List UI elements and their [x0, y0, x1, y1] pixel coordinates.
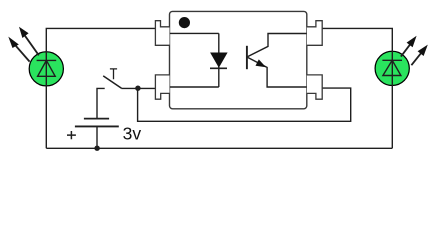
pin 1 index dot — [179, 17, 190, 28]
wire: switch left terminal down to battery top plate — [97, 88, 105, 118]
wire: LED D1 anode to top rail and to optocoupler pin 1 — [46, 28, 155, 148]
internal LED cathode wire — [170, 86, 219, 88]
internal LED triangle — [210, 53, 228, 68]
battery plus sign — [67, 131, 76, 139]
phototransistor Q1 collector arm and wire to pin 4 — [247, 34, 307, 58]
wire: junction down, under IC, up to optocoupler pin 3 — [138, 88, 351, 121]
battery B1 negative plate (short) — [84, 118, 109, 120]
wire: bottom rail — [46, 147, 392, 149]
battery B1 positive plate (long) — [75, 125, 119, 127]
LED D1 cathode bar — [37, 59, 57, 61]
pin 3 (emitter, bottom-right) — [307, 75, 322, 99]
internal LED anode wire — [170, 32, 219, 34]
pin 1 (anode, top-left) — [155, 21, 169, 46]
pin 2 (cathode, bottom-left) — [155, 75, 169, 99]
internal LED vertical lead — [218, 33, 220, 87]
wire: switch right terminal to optocoupler pin 2 — [121, 87, 155, 89]
optocoupler U1 package body — [170, 11, 307, 108]
junction node at battery positive on bottom rail — [94, 146, 99, 151]
LED D2 light arrow b — [411, 53, 421, 65]
LED D1 light arrow b — [25, 36, 39, 56]
LED D2 cathode bar — [382, 59, 402, 61]
switch SW1 plunger — [110, 69, 117, 79]
wire: optocoupler pin 4 to LED D2 and down to bottom rail — [322, 28, 392, 148]
svg-text:3v: 3v — [123, 124, 142, 144]
LED D2 triangle — [383, 60, 401, 75]
internal LED cathode bar — [210, 67, 227, 69]
phototransistor Q1 emitter arrowhead — [256, 59, 267, 67]
LED D1 triangle — [38, 60, 56, 76]
LED D2 body (green) — [375, 51, 409, 85]
pin 4 (collector, top-right) — [307, 21, 322, 46]
wire: battery bottom plate to bottom rail — [96, 126, 98, 148]
junction node at switch output — [135, 86, 140, 91]
switch SW1 lever — [103, 76, 121, 88]
LED D1 light arrow a — [16, 46, 30, 62]
phototransistor Q1 base bar — [246, 46, 248, 69]
phototransistor Q1 emitter arm and wire to pin 3 — [247, 57, 307, 87]
LED D1 body (green) — [29, 52, 63, 86]
LED D2 light arrow a — [401, 45, 410, 57]
